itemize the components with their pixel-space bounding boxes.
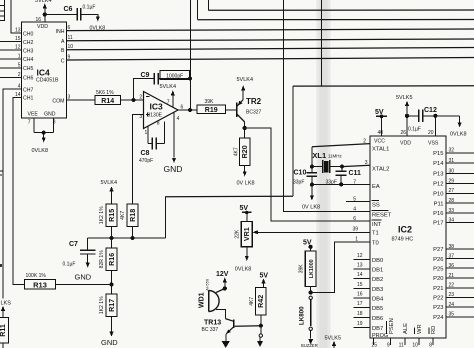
capacitor C7 0.1uF	[87, 238, 89, 250]
pin P21	[446, 287, 474, 289]
svg-text:0.1µF: 0.1µF	[408, 127, 421, 133]
resistor R15 1K2 1%	[106, 204, 117, 227]
svg-text:PSEN: PSEN	[389, 318, 395, 334]
wire top edge to RESET	[284, 0, 371, 212]
svg-text:16: 16	[35, 17, 41, 23]
node C9/output	[188, 76, 192, 80]
svg-text:DB1: DB1	[372, 268, 383, 274]
pin 5 SS	[346, 201, 370, 203]
capacitor C6 0.1uF	[45, 14, 77, 16]
svg-text:CH7: CH7	[23, 87, 33, 93]
resistor R20 4K7	[244, 128, 246, 138]
op-amp IC3 3130E	[144, 92, 179, 129]
svg-text:P27: P27	[433, 247, 443, 253]
svg-text:GND: GND	[44, 112, 56, 118]
svg-text:5VLK4: 5VLK4	[160, 84, 177, 90]
svg-text:5VLK5: 5VLK5	[325, 336, 342, 342]
svg-text:LKS: LKS	[1, 301, 12, 307]
junction VDD/C6	[43, 12, 47, 16]
svg-text:13: 13	[357, 263, 363, 269]
svg-text:RESET: RESET	[372, 212, 392, 218]
wire rail to right edge (n-wire)	[164, 197, 166, 238]
svg-text:24: 24	[449, 302, 455, 308]
svg-text:3130E: 3130E	[148, 113, 163, 119]
net 0VLK8 (VR1)	[246, 247, 248, 256]
svg-text:28: 28	[449, 198, 455, 204]
svg-text:5VLK4: 5VLK4	[35, 0, 52, 4]
svg-text:27: 27	[449, 188, 455, 194]
svg-text:12V: 12V	[216, 271, 229, 278]
svg-text:23: 23	[449, 292, 455, 298]
svg-text:20: 20	[428, 130, 434, 136]
bus wire 1 from top edge	[208, 0, 210, 10]
svg-text:1: 1	[145, 130, 148, 136]
svg-text:LK800: LK800	[299, 306, 306, 325]
node crystal left	[310, 165, 314, 169]
svg-text:CD4051B: CD4051B	[36, 78, 59, 84]
wire CH7 down left edge	[3, 89, 22, 298]
svg-text:P21: P21	[433, 286, 443, 292]
net 0VLK8 (C6)	[96, 16, 100, 21]
wire collector to INT	[245, 128, 370, 221]
pin WR	[418, 338, 420, 345]
wire CH2 from left edge	[0, 41, 22, 43]
wire CH3 from left edge	[0, 49, 22, 51]
node R42/TR13	[259, 324, 263, 328]
svg-text:5VLK5: 5VLK5	[396, 95, 413, 101]
svg-text:22K: 22K	[234, 229, 240, 239]
svg-text:1: 1	[18, 54, 21, 60]
wire LK1000 to T0	[311, 242, 370, 293]
svg-text:INH: INH	[56, 29, 65, 35]
pin P14	[446, 162, 474, 164]
svg-text:22: 22	[449, 283, 455, 289]
svg-text:7: 7	[353, 180, 356, 186]
pin P17	[446, 222, 474, 224]
svg-text:DB5: DB5	[372, 306, 383, 312]
svg-text:R16: R16	[108, 253, 116, 266]
svg-text:DB7: DB7	[372, 326, 383, 332]
svg-text:GND: GND	[101, 338, 118, 347]
pin P23	[446, 306, 474, 308]
resistor R14 5K6 1%	[67, 99, 96, 101]
svg-text:4: 4	[353, 207, 356, 213]
resistor R17 1K2 1%	[111, 284, 113, 294]
svg-text:CH4: CH4	[23, 57, 33, 63]
svg-text:5VLK4: 5VLK4	[101, 180, 118, 186]
svg-text:R42: R42	[257, 295, 265, 308]
svg-text:CH5: CH5	[23, 66, 33, 72]
svg-text:35: 35	[449, 312, 455, 318]
svg-text:33pF: 33pF	[293, 179, 304, 185]
svg-text:0VLK8: 0VLK8	[450, 132, 467, 138]
svg-text:VDD: VDD	[37, 24, 48, 30]
svg-text:15: 15	[15, 36, 21, 42]
svg-text:AI-550: AI-550	[204, 278, 209, 291]
svg-text:5: 5	[18, 62, 21, 68]
svg-text:WD1: WD1	[199, 292, 206, 308]
pin DB3	[354, 288, 371, 290]
svg-text:P14: P14	[433, 161, 444, 167]
svg-text:5V: 5V	[375, 109, 384, 116]
svg-text:12: 12	[15, 45, 21, 51]
svg-text:21: 21	[449, 273, 455, 279]
svg-text:VSS: VSS	[428, 141, 439, 147]
svg-text:0V LK8: 0V LK8	[302, 205, 320, 211]
svg-text:37: 37	[449, 253, 455, 259]
svg-text:A: A	[61, 39, 65, 45]
link terminal below R42	[260, 326, 262, 334]
wire VSS pin 20	[433, 114, 437, 118]
svg-text:BUZZER: BUZZER	[301, 343, 318, 348]
svg-text:38: 38	[449, 244, 455, 250]
wire output node to top edge	[190, 0, 192, 110]
svg-text:100K 1%: 100K 1%	[26, 273, 47, 279]
svg-text:2: 2	[363, 139, 366, 145]
node inverting input	[132, 98, 136, 102]
svg-text:C12: C12	[424, 107, 437, 114]
svg-text:T1: T1	[372, 230, 379, 236]
svg-text:C10: C10	[294, 170, 307, 177]
svg-text:BC 337: BC 337	[202, 327, 219, 333]
svg-text:IC3: IC3	[150, 102, 164, 112]
svg-text:EA: EA	[372, 184, 380, 190]
svg-text:13: 13	[15, 28, 21, 34]
svg-text:25: 25	[371, 343, 377, 348]
svg-text:GND: GND	[75, 273, 92, 282]
svg-text:5: 5	[353, 197, 356, 203]
svg-text:4K7: 4K7	[120, 211, 126, 220]
bus wire 2 from top edge	[197, 0, 199, 20]
svg-text:40: 40	[377, 130, 383, 136]
svg-text:R19: R19	[205, 107, 218, 114]
svg-text:DB4: DB4	[372, 297, 384, 303]
IC2 8749 HC	[370, 136, 446, 338]
wire VEE pin 7	[33, 118, 35, 132]
pin P12	[446, 183, 474, 185]
svg-text:COM: COM	[52, 98, 64, 104]
pin DB2	[354, 278, 371, 280]
svg-text:P12: P12	[433, 182, 443, 188]
svg-text:P26: P26	[433, 257, 443, 263]
net 0VLK8 (IC4)	[43, 133, 45, 138]
svg-text:5V: 5V	[260, 273, 269, 280]
svg-text:1K2 1%: 1K2 1%	[99, 206, 105, 224]
resistor R16 82R 1%	[111, 238, 113, 248]
svg-text:P23: P23	[433, 305, 443, 311]
wire TR13 to R42	[235, 325, 261, 328]
svg-text:C8: C8	[141, 150, 150, 157]
svg-text:15: 15	[357, 282, 363, 288]
svg-text:P11: P11	[434, 201, 444, 207]
capacitor C9 1000pF	[134, 79, 155, 101]
svg-text:R15: R15	[108, 209, 116, 222]
capacitor C12 0.1uF	[407, 115, 419, 117]
pin PSEN	[390, 338, 392, 345]
svg-text:P13: P13	[433, 172, 443, 178]
svg-text:R13: R13	[33, 281, 47, 290]
svg-text:P22: P22	[433, 296, 443, 302]
svg-text:CH6: CH6	[23, 76, 33, 82]
ground GND (IC3 pin 4)	[173, 113, 175, 158]
wire GND pin 8	[53, 118, 55, 132]
wire CH0 from top edge	[11, 0, 22, 33]
svg-text:30: 30	[449, 168, 455, 174]
svg-text:CH3: CH3	[23, 48, 33, 54]
pin P16	[446, 212, 474, 214]
svg-text:R11: R11	[0, 324, 7, 337]
pin P11	[446, 202, 474, 204]
bus wire INH	[67, 29, 474, 31]
resistor R11 (cut at left edge)	[0, 318, 9, 344]
resistor (cut off at top-left corner)	[0, 0, 5, 21]
svg-text:82R 1%: 82R 1%	[99, 250, 105, 269]
wire pin 1	[147, 126, 149, 144]
pin DB5	[354, 307, 371, 309]
svg-text:P25: P25	[433, 266, 443, 272]
svg-text:11MHz: 11MHz	[328, 154, 343, 159]
resistor LK1000 39K	[305, 251, 316, 287]
svg-text:8: 8	[157, 121, 160, 127]
svg-text:10: 10	[412, 343, 418, 348]
off-page arrow (TR13 emitter)	[222, 341, 230, 348]
pin DB1	[354, 268, 371, 270]
svg-text:TR13: TR13	[204, 320, 221, 327]
svg-text:1K2 1%: 1K2 1%	[99, 296, 105, 314]
resistor R42 4K7	[256, 288, 267, 316]
wire VR1 wiper to T1	[252, 230, 258, 234]
node crystal right	[340, 165, 344, 169]
off-page arrow BUZZER	[310, 331, 312, 339]
svg-text:GND: GND	[164, 164, 183, 174]
pin P22	[446, 296, 474, 298]
svg-text:4: 4	[177, 116, 180, 122]
wire to XTAL1	[311, 147, 313, 167]
svg-text:R14: R14	[101, 98, 114, 105]
bus wire C	[67, 58, 474, 61]
svg-text:P15: P15	[433, 151, 443, 157]
svg-text:3: 3	[365, 160, 368, 166]
svg-text:11: 11	[399, 343, 404, 348]
transistor TR2 BC327	[236, 103, 238, 118]
svg-text:CH1: CH1	[23, 96, 33, 102]
svg-text:2: 2	[18, 72, 21, 78]
svg-text:4: 4	[18, 84, 21, 90]
svg-text:CH2: CH2	[23, 40, 33, 46]
svg-text:PROG: PROG	[372, 333, 388, 339]
pin P20	[446, 277, 474, 279]
wire to XTAL2	[342, 165, 370, 166]
net 0VLK8 (C12)	[459, 116, 461, 123]
svg-text:TR2: TR2	[246, 97, 262, 106]
svg-text:VCC: VCC	[374, 139, 385, 145]
svg-text:BC327: BC327	[246, 110, 262, 116]
svg-text:1000pF: 1000pF	[166, 74, 183, 80]
wire CH4 from left edge	[0, 58, 22, 60]
pin RD	[432, 338, 434, 345]
wire top edge down (x=321)	[321, 0, 323, 86]
supply 5VLK4 (IC3 pin 7)	[172, 96, 174, 108]
svg-text:DB0: DB0	[372, 258, 383, 264]
svg-text:12: 12	[357, 253, 363, 259]
supply 5V (VCC pin 40)	[381, 116, 383, 136]
svg-text:P24: P24	[433, 315, 444, 321]
svg-text:P16: P16	[433, 211, 443, 217]
resistor R18 4K7	[127, 204, 138, 227]
svg-text:CH0: CH0	[23, 31, 33, 37]
svg-text:C: C	[61, 58, 65, 64]
wire join VEE/GND	[34, 131, 54, 133]
svg-text:32: 32	[449, 148, 455, 154]
svg-text:B: B	[61, 48, 65, 54]
svg-text:16: 16	[357, 292, 363, 298]
svg-text:31: 31	[449, 158, 455, 164]
svg-text:0VLK8: 0VLK8	[32, 148, 49, 154]
svg-text:9: 9	[387, 343, 390, 348]
capacitor C8 470pF	[148, 143, 165, 145]
svg-text:R20: R20	[241, 145, 249, 158]
svg-text:T0: T0	[372, 240, 379, 246]
supply 5VLK4 (TR2)	[241, 85, 245, 90]
crystal XL1 11MHz	[312, 166, 342, 168]
svg-text:0.1µF: 0.1µF	[63, 262, 76, 268]
wire CH6 from left edge	[0, 77, 22, 79]
svg-text:VR1: VR1	[243, 227, 251, 241]
pin P26	[446, 258, 474, 260]
svg-text:36: 36	[449, 263, 455, 269]
node LK1000/T0	[309, 290, 313, 294]
potentiometer VR1 22K	[241, 222, 252, 247]
svg-text:8: 8	[53, 120, 56, 126]
svg-text:DB6: DB6	[372, 316, 383, 322]
pin DB7	[354, 327, 371, 329]
svg-text:29: 29	[449, 178, 455, 184]
svg-text:SS: SS	[372, 202, 380, 208]
svg-text:VEE: VEE	[28, 112, 39, 118]
svg-text:DB2: DB2	[372, 277, 383, 283]
wire CH1 down to R13	[13, 97, 25, 284]
wire crystal ground rail to EA	[312, 184, 370, 186]
svg-text:26: 26	[400, 130, 406, 136]
svg-text:LK1000: LK1000	[309, 259, 315, 278]
wire CH5 from left edge	[0, 67, 22, 69]
svg-text:34: 34	[449, 217, 455, 223]
svg-text:14: 14	[357, 272, 363, 278]
ground GND (C7)	[86, 263, 90, 268]
node R13/R16/R17	[109, 282, 113, 286]
svg-text:0VLK8: 0VLK8	[235, 267, 252, 273]
svg-text:470pF: 470pF	[139, 158, 153, 164]
ground GND (R17)	[109, 332, 113, 337]
svg-text:C6: C6	[64, 6, 73, 13]
svg-text:4K7: 4K7	[249, 297, 255, 306]
wire IC3 output pin 6	[178, 109, 197, 111]
svg-text:IC2: IC2	[398, 225, 412, 235]
svg-text:P10: P10	[433, 192, 443, 198]
svg-text:17: 17	[357, 301, 363, 307]
svg-text:8749 HC: 8749 HC	[392, 237, 414, 243]
svg-text:18: 18	[357, 311, 363, 317]
svg-text:7: 7	[167, 100, 170, 106]
svg-text:39: 39	[352, 227, 358, 233]
sounder WD1 AI-550	[208, 291, 210, 312]
svg-text:8: 8	[429, 343, 432, 348]
pin P27	[446, 248, 474, 250]
svg-text:XTAL1: XTAL1	[372, 147, 389, 153]
bus wire A	[67, 39, 474, 41]
svg-text:4K7: 4K7	[234, 147, 240, 156]
svg-text:19: 19	[357, 321, 363, 327]
svg-text:1: 1	[355, 237, 358, 243]
bus wire B	[67, 48, 474, 50]
pin P15	[446, 152, 474, 154]
pin P13	[446, 173, 474, 175]
svg-text:VDD: VDD	[400, 141, 411, 147]
wire TR2 collector	[237, 114, 245, 122]
capacitor C11 33pF	[340, 167, 343, 185]
svg-text:C11: C11	[349, 170, 362, 177]
svg-text:0V LK8: 0V LK8	[237, 181, 255, 187]
svg-text:XTAL2: XTAL2	[372, 167, 389, 173]
pin P25	[446, 267, 474, 269]
smudge left edge	[0, 171, 4, 175]
svg-text:39K: 39K	[205, 99, 215, 105]
wire IC3 pin3 to R18	[133, 115, 144, 205]
transistor TR13 BC337	[233, 319, 235, 328]
svg-text:P20: P20	[433, 276, 443, 282]
svg-text:P17: P17	[433, 221, 443, 227]
svg-text:WR: WR	[417, 324, 423, 334]
IC4 CD4051B	[22, 22, 67, 118]
svg-text:33: 33	[449, 208, 455, 214]
svg-text:INT: INT	[372, 222, 382, 228]
pin P24	[446, 316, 474, 318]
link LK800	[309, 296, 312, 299]
pin DB6	[354, 317, 371, 319]
svg-text:IC4: IC4	[37, 68, 51, 78]
wire divider rail	[88, 237, 166, 239]
pin DB4	[354, 297, 371, 299]
svg-text:0.1µF: 0.1µF	[83, 5, 96, 11]
capacitor C10 33pF	[311, 167, 313, 173]
pin P10	[446, 192, 474, 194]
net 0V LK8 (crystal)	[311, 185, 313, 196]
svg-text:7: 7	[28, 120, 31, 126]
svg-text:C9: C9	[141, 72, 150, 79]
svg-text:DB3: DB3	[372, 287, 383, 293]
svg-text:XL1: XL1	[312, 151, 326, 160]
svg-text:ALE: ALE	[403, 323, 409, 334]
svg-text:R18: R18	[129, 209, 137, 222]
net 0V LK8 (R20)	[243, 171, 247, 176]
svg-text:14: 14	[15, 92, 21, 98]
wire VDD pin 26	[406, 116, 408, 136]
svg-text:6: 6	[353, 216, 356, 222]
svg-text:2: 2	[139, 95, 142, 101]
pin ALE	[404, 338, 406, 345]
svg-text:C7: C7	[69, 241, 78, 248]
svg-text:5VLK4: 5VLK4	[237, 77, 254, 83]
svg-text:39K: 39K	[298, 264, 304, 274]
wire pin 8	[164, 122, 166, 144]
svg-text:RD: RD	[431, 326, 437, 334]
pin DB0	[354, 259, 371, 261]
svg-text:R17: R17	[108, 299, 116, 312]
